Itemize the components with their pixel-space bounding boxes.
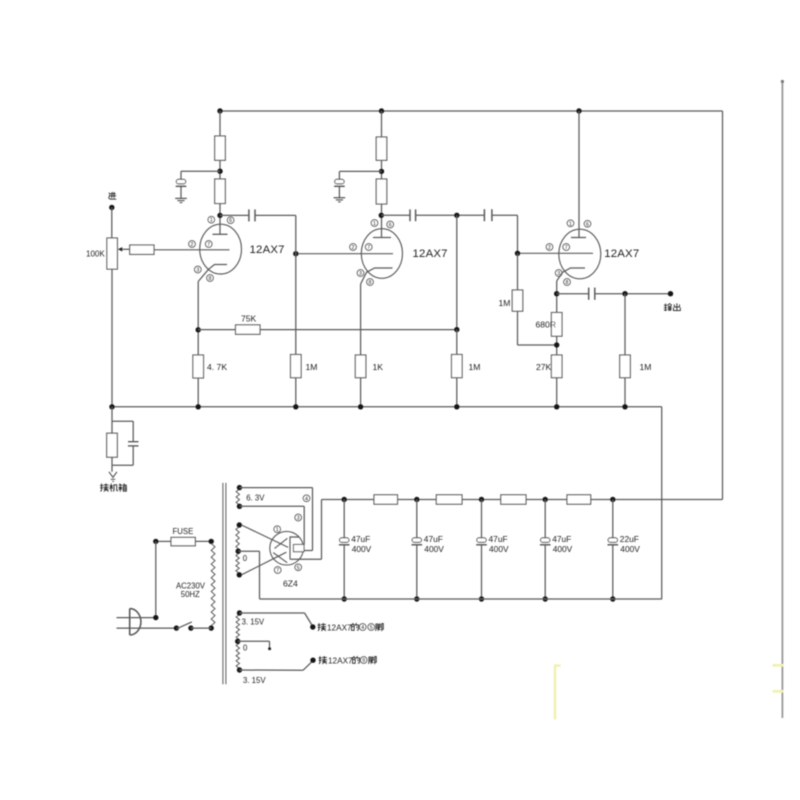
label 1K bbox=[373, 362, 384, 372]
wire to stage1 decoupling cap bbox=[181, 171, 220, 179]
capacitor 47uF 400V filter 2 bbox=[412, 500, 423, 600]
svg-text:6. 3V: 6. 3V bbox=[246, 493, 265, 502]
resistor PSU filter R3 bbox=[501, 495, 526, 504]
pin 1 V2 bbox=[371, 220, 378, 227]
pin 7 V3 bbox=[563, 244, 570, 251]
tube V1 12AX7 envelope bbox=[200, 224, 242, 274]
svg-text:680R: 680R bbox=[536, 320, 557, 330]
label V1 12AX7 bbox=[250, 244, 285, 256]
capacitor 22uF 400V filter 5 bbox=[608, 500, 619, 600]
wire heater top lead bbox=[240, 613, 313, 627]
svg-text:2: 2 bbox=[352, 245, 355, 251]
resistor PSU filter R2 bbox=[436, 495, 462, 504]
resistor stage2 plate upper bbox=[376, 137, 387, 160]
node primary top bbox=[209, 539, 214, 544]
node B+ filter 5 bbox=[610, 497, 615, 502]
node B+ filter 3 bbox=[479, 497, 484, 502]
svg-text:12AX7: 12AX7 bbox=[328, 656, 353, 665]
wire mains live bbox=[155, 541, 157, 617]
svg-text:6: 6 bbox=[229, 218, 232, 224]
node input terminal bbox=[109, 205, 114, 210]
label 0 heater center bbox=[243, 644, 248, 653]
pin 5 6Z4 bbox=[295, 564, 302, 571]
wire stage3 grid to 1M bbox=[517, 253, 519, 290]
tube V1 plate bar bbox=[213, 233, 228, 235]
tube 6Z4 plate1 cross bbox=[275, 538, 288, 548]
node stage1 decoupling bbox=[217, 169, 222, 174]
wire cathode to 75K bbox=[198, 329, 235, 331]
svg-text:4: 4 bbox=[361, 625, 364, 631]
node B+ filter 4 bbox=[543, 497, 548, 502]
resistor chassis bleed bbox=[107, 433, 118, 457]
pin 7 V1 bbox=[205, 241, 212, 248]
svg-text:4: 4 bbox=[305, 496, 308, 502]
wire stage2 cathode to 1K bbox=[360, 284, 362, 355]
svg-text:12AX7: 12AX7 bbox=[250, 244, 285, 256]
wire output load 1M bbox=[624, 294, 626, 355]
node HV bottom bbox=[237, 572, 242, 577]
label 1M NFB bbox=[469, 362, 481, 372]
label heater lead A 接12AX7的④⑤脚 bbox=[318, 623, 383, 632]
wire input to volume pot bbox=[111, 208, 113, 239]
node 6.3V bottom bbox=[237, 504, 242, 509]
svg-text:1M: 1M bbox=[640, 362, 652, 372]
wire 1K to ground rail bbox=[360, 378, 362, 407]
node stage3 cathode out bbox=[554, 291, 559, 296]
wire chassis branch split bbox=[112, 407, 133, 433]
wire output coupling bbox=[557, 293, 589, 295]
node ground rail 27K bbox=[554, 404, 559, 409]
wire stage1 cathode to bias network bbox=[197, 282, 199, 356]
node stage1 plate bbox=[217, 213, 222, 218]
svg-text:7: 7 bbox=[276, 568, 279, 574]
svg-text:8: 8 bbox=[369, 280, 372, 286]
resistor 4.7K stage1 cathode bbox=[193, 355, 204, 378]
pin 7 V2 bbox=[365, 244, 372, 251]
node switch right bbox=[188, 625, 193, 630]
capacitor 47uF 400V filter 3 bbox=[476, 500, 487, 600]
wire C3 to stage3 grid bbox=[492, 215, 518, 253]
svg-text:0: 0 bbox=[243, 644, 248, 653]
pin 3 V3 bbox=[555, 270, 562, 277]
svg-text:1M: 1M bbox=[469, 362, 481, 372]
node heater lead B bbox=[310, 658, 315, 663]
chassis ground symbol bbox=[109, 472, 117, 482]
node NFB rail end bbox=[454, 327, 459, 332]
pin 6 V3 bbox=[584, 220, 591, 227]
svg-text:3: 3 bbox=[196, 268, 199, 274]
label FUSE bbox=[173, 527, 194, 536]
ground stage2 decoupling bbox=[334, 198, 346, 202]
label 接机箱 bbox=[100, 484, 126, 491]
wire to stage2 decoupling cap bbox=[339, 171, 381, 179]
wire HV bottom to plate bbox=[242, 552, 287, 575]
wire coupling C1 to stage2 grid bbox=[255, 214, 296, 216]
node heater lead A bbox=[310, 624, 315, 629]
wire output bbox=[595, 293, 671, 295]
svg-text:3. 15V: 3. 15V bbox=[242, 617, 265, 626]
transformer 6.3V winding bbox=[236, 489, 239, 505]
node ground bus 5 bbox=[610, 596, 615, 601]
wire pot to ground rail bbox=[111, 269, 113, 407]
transformer heater winding upper bbox=[236, 615, 239, 640]
node output terminal bbox=[668, 291, 673, 296]
svg-text:7: 7 bbox=[207, 242, 210, 248]
svg-text:75K: 75K bbox=[241, 314, 257, 324]
wire 680R to 27K node bbox=[556, 336, 558, 355]
svg-text:12AX7: 12AX7 bbox=[413, 248, 448, 260]
capacitor C3 coupling to stage3 bbox=[484, 209, 492, 221]
tube V2 grid line bbox=[296, 253, 393, 255]
wire B+ top rail bbox=[220, 111, 723, 500]
label 100K bbox=[86, 250, 105, 259]
node HV center tap bbox=[236, 549, 241, 554]
resistor stage1 plate lower bbox=[215, 179, 226, 204]
svg-text:47uF: 47uF bbox=[351, 534, 370, 544]
wire stage2 grid leak bbox=[295, 215, 297, 354]
svg-text:0: 0 bbox=[243, 554, 248, 563]
svg-text:1M: 1M bbox=[499, 298, 511, 308]
svg-text:47uF: 47uF bbox=[489, 534, 508, 544]
label 6.3V bbox=[246, 493, 265, 502]
transformer primary winding bbox=[211, 544, 215, 626]
wire stage2 coupling bbox=[382, 214, 410, 216]
pin 1 V1 bbox=[208, 216, 215, 223]
svg-text:27K: 27K bbox=[536, 362, 552, 372]
wire B+ filter line bbox=[322, 499, 723, 501]
label 47uF 400V bbox=[552, 534, 572, 554]
svg-text:22uF: 22uF bbox=[620, 534, 639, 544]
svg-text:9: 9 bbox=[362, 658, 365, 664]
wire heater bottom lead bbox=[240, 661, 314, 671]
capacitor output coupling bbox=[589, 288, 595, 300]
pin 8 V3 bbox=[564, 279, 571, 286]
node ground rail 1K bbox=[358, 404, 363, 409]
wire NFB 1M connections bbox=[456, 330, 458, 407]
node heater bottom bbox=[237, 667, 242, 672]
node stage3 grid bbox=[515, 251, 520, 256]
node output load bbox=[622, 291, 627, 296]
label V2 12AX7 bbox=[413, 248, 448, 260]
node ground bus 2 bbox=[414, 596, 419, 601]
label 0 center tap bbox=[243, 554, 248, 563]
resistor stage1 grid stopper bbox=[130, 245, 154, 254]
label 50HZ bbox=[181, 590, 200, 599]
label 47uF 400V bbox=[351, 534, 371, 554]
svg-text:3. 15V: 3. 15V bbox=[243, 676, 266, 685]
svg-text:400V: 400V bbox=[489, 544, 509, 554]
wire output 1M to ground rail bbox=[624, 378, 626, 407]
svg-text:3: 3 bbox=[297, 516, 300, 522]
capacitor stage2 decoupling bbox=[334, 179, 345, 197]
svg-text:400V: 400V bbox=[620, 544, 640, 554]
resistor 1K stage2 cathode bbox=[355, 355, 366, 378]
node ground rail 1M nfb bbox=[454, 404, 459, 409]
tube V2 cathode bbox=[361, 268, 393, 284]
label 27K bbox=[536, 362, 552, 372]
svg-text:12AX7: 12AX7 bbox=[327, 623, 352, 632]
tube V2 12AX7 envelope bbox=[361, 229, 402, 279]
tube V3 12AX7 envelope bbox=[559, 229, 601, 279]
svg-text:8: 8 bbox=[566, 280, 569, 286]
svg-text:7: 7 bbox=[367, 245, 370, 251]
transformer HV winding lower bbox=[236, 553, 239, 573]
svg-text:6: 6 bbox=[586, 222, 589, 228]
yellow mark lower right bbox=[773, 690, 784, 693]
svg-text:3: 3 bbox=[557, 271, 560, 277]
wire 1M to ground rail bbox=[295, 378, 297, 407]
wire chassis branch join bbox=[112, 457, 133, 472]
yellow highlight bracket bbox=[555, 666, 561, 720]
node top rail / stage2 plate resistor bbox=[379, 108, 384, 113]
capacitor chassis bbox=[128, 421, 139, 465]
svg-text:1: 1 bbox=[373, 221, 376, 227]
svg-text:1: 1 bbox=[569, 221, 572, 227]
label 6Z4 bbox=[283, 579, 298, 589]
node HV top bbox=[237, 522, 242, 527]
svg-text:1K: 1K bbox=[373, 362, 384, 372]
svg-text:1M: 1M bbox=[306, 362, 318, 372]
label 47uF 400V bbox=[424, 534, 444, 554]
svg-text:47uF: 47uF bbox=[424, 534, 443, 544]
wire stage3 cathode node bbox=[556, 281, 558, 313]
label AC230V bbox=[176, 581, 206, 590]
pin 7 6Z4 bbox=[274, 567, 281, 574]
node heater center tap bbox=[235, 639, 240, 644]
transformer T1 core bbox=[223, 483, 226, 684]
potentiometer 100K bbox=[107, 238, 130, 269]
tube V1 cathode bbox=[198, 265, 227, 282]
node B+ filter 1 bbox=[342, 497, 347, 502]
svg-text:8: 8 bbox=[209, 276, 212, 282]
wire C2 to NFB node bbox=[416, 214, 484, 216]
capacitor 47uF 400V filter 1 bbox=[339, 500, 350, 600]
svg-text:1: 1 bbox=[276, 527, 279, 533]
label 3.15V bottom bbox=[243, 676, 266, 685]
svg-text:6Z4: 6Z4 bbox=[283, 579, 298, 589]
node NFB takeoff bbox=[454, 213, 459, 218]
pin 8 V2 bbox=[367, 279, 374, 286]
node 680R 27K junction bbox=[554, 342, 559, 347]
svg-text:7: 7 bbox=[565, 245, 568, 251]
label 1M output bbox=[640, 362, 652, 372]
resistor 1M stage3 grid bbox=[512, 290, 523, 311]
svg-text:400V: 400V bbox=[553, 544, 573, 554]
pin 2 V2 bbox=[350, 244, 357, 251]
label 680R bbox=[536, 320, 557, 330]
pin 3 6Z4 bbox=[295, 514, 302, 521]
wire stage1 plate supply bbox=[219, 111, 221, 136]
page divider gray line bbox=[781, 80, 784, 718]
wire stage2 decoupling node bbox=[381, 160, 383, 179]
tube V3 cathode bbox=[557, 268, 585, 281]
resistor 1M NFB node bbox=[452, 355, 463, 378]
label input 进 bbox=[109, 192, 116, 199]
wire stage3 plate to B+ bbox=[578, 111, 580, 238]
svg-text:12AX7: 12AX7 bbox=[604, 248, 639, 260]
svg-text:100K: 100K bbox=[86, 250, 105, 259]
wire 1M stage3 to cathode divider bbox=[518, 311, 557, 345]
tube V3 grid line bbox=[518, 252, 594, 254]
tube 6Z4 envelope bbox=[270, 531, 304, 565]
switch S1 blade bbox=[177, 622, 192, 629]
svg-text:5: 5 bbox=[370, 625, 373, 631]
tube V2 plate bar bbox=[373, 237, 391, 239]
node ground bus 4 bbox=[543, 596, 548, 601]
wire ground rail bbox=[112, 407, 662, 599]
label 1M stage2 grid bbox=[306, 362, 318, 372]
wire 27K to ground rail bbox=[556, 378, 558, 407]
svg-text:4. 7K: 4. 7K bbox=[207, 362, 227, 372]
yellow mark upper right bbox=[773, 664, 784, 667]
capacitor C1 coupling stage1-stage2 bbox=[249, 209, 255, 221]
resistor stage2 plate lower bbox=[376, 179, 387, 204]
svg-text:2: 2 bbox=[548, 245, 551, 251]
wire switch to primary bbox=[191, 627, 211, 629]
node heater top bbox=[237, 610, 242, 615]
resistor PSU filter R1 bbox=[374, 495, 398, 504]
resistor PSU filter R4 bbox=[567, 495, 591, 504]
wire heater center tap stub bbox=[238, 641, 271, 650]
resistor stage1 plate upper bbox=[215, 136, 226, 160]
wire NFB node down to rail bbox=[456, 215, 458, 329]
wire stage1 decoupling node bbox=[219, 160, 221, 179]
svg-text:1: 1 bbox=[210, 218, 213, 224]
node switch left bbox=[174, 625, 179, 630]
node 6.3V top bbox=[237, 485, 242, 490]
svg-text:50HZ: 50HZ bbox=[181, 590, 200, 599]
node ground rail 1M g2 bbox=[293, 404, 298, 409]
mains plug bbox=[117, 609, 177, 635]
label heater lead B 接12AX7的⑨脚 bbox=[319, 656, 376, 665]
wire 6.3V top to rectifier pin4 bbox=[240, 488, 313, 551]
wire PSU ground bus bbox=[260, 598, 662, 600]
svg-text:3: 3 bbox=[359, 271, 362, 277]
transformer HV winding upper bbox=[236, 527, 239, 550]
tube V1 grid line bbox=[154, 249, 230, 251]
wire fuse input bbox=[156, 540, 171, 542]
svg-text:2: 2 bbox=[191, 242, 194, 248]
svg-text:400V: 400V bbox=[352, 544, 372, 554]
node stage2 plate bbox=[379, 213, 384, 218]
pin 2 V3 bbox=[546, 244, 553, 251]
node stage2 decoupling bbox=[379, 169, 384, 174]
tube V3 plate bar bbox=[571, 237, 586, 239]
label 4.7K bbox=[207, 362, 227, 372]
wire stage2 plate supply bbox=[381, 111, 383, 137]
wire 6.3V bottom to rectifier pin3 bbox=[240, 506, 305, 544]
node ground bus 1 bbox=[342, 596, 347, 601]
capacitor 47uF 400V filter 4 bbox=[540, 500, 551, 600]
svg-text:5: 5 bbox=[297, 565, 300, 571]
transformer heater winding lower bbox=[236, 643, 239, 669]
label 22uF 400V bbox=[620, 534, 640, 554]
label 1M stage3 grid bbox=[499, 298, 511, 308]
capacitor stage1 decoupling bbox=[176, 179, 187, 198]
node ground rail 4.7K bbox=[196, 404, 201, 409]
pin 6 V1 bbox=[227, 217, 234, 224]
wire stage1 plate node bbox=[219, 204, 221, 235]
tube 6Z4 cathode bracket bbox=[290, 537, 299, 559]
pin 2 V1 bbox=[189, 241, 196, 248]
tube 6Z4 heater box bbox=[294, 545, 305, 552]
resistor 1M stage2 grid leak bbox=[291, 355, 302, 378]
wire center tap to ground bus bbox=[238, 551, 259, 599]
wire feedback rail bbox=[260, 329, 457, 331]
svg-text:FUSE: FUSE bbox=[173, 527, 194, 536]
pin 3 V2 bbox=[357, 270, 364, 277]
pin 1 V3 bbox=[567, 220, 574, 227]
resistor 680R bbox=[551, 313, 562, 337]
wire 4.7K to ground rail bbox=[197, 378, 199, 407]
label 47uF 400V bbox=[489, 534, 509, 554]
label output 输出 bbox=[664, 304, 680, 311]
wire stage1 coupling bbox=[220, 214, 249, 216]
wire stage2 plate node bbox=[381, 204, 383, 238]
node top rail / stage1 plate resistor bbox=[217, 108, 222, 113]
svg-text:6: 6 bbox=[389, 223, 392, 229]
tube 6Z4 plate2 cross bbox=[273, 553, 287, 563]
node top rail / stage3 plate bbox=[576, 108, 581, 113]
label V3 12AX7 bbox=[604, 248, 639, 260]
label 75K bbox=[241, 314, 257, 324]
node ground rail 1M out bbox=[622, 404, 627, 409]
resistor 75K feedback bbox=[236, 325, 261, 334]
resistor 1M output load bbox=[620, 355, 631, 378]
pin 1 6Z4 bbox=[274, 526, 281, 533]
node ground bus 3 bbox=[479, 596, 484, 601]
svg-text:47uF: 47uF bbox=[552, 534, 571, 544]
pin 4 6Z4 bbox=[303, 495, 310, 502]
pin 3 V1 bbox=[194, 266, 201, 273]
wire 6Z4 cathode output bbox=[290, 500, 322, 560]
label 3.15V top bbox=[242, 617, 265, 626]
resistor 27K bbox=[551, 355, 562, 378]
wire HV top to plate bbox=[242, 525, 289, 547]
node primary bottom bbox=[209, 625, 214, 630]
ground stage1 decoupling bbox=[175, 198, 187, 202]
wire fuse to primary bbox=[195, 540, 211, 542]
pin 6 V2 bbox=[387, 221, 394, 228]
node ground rail pot bbox=[109, 404, 114, 409]
node B+ filter 2 bbox=[414, 497, 419, 502]
node plug top prong bbox=[153, 615, 158, 620]
svg-text:400V: 400V bbox=[424, 544, 444, 554]
node fuse left bbox=[153, 539, 158, 544]
capacitor C2 coupling stage2 bbox=[410, 209, 416, 221]
pin 8 V1 bbox=[207, 275, 214, 282]
fuse F1 bbox=[171, 537, 195, 545]
node stage2 grid bbox=[293, 251, 298, 256]
node stage1 cathode bbox=[196, 327, 201, 332]
